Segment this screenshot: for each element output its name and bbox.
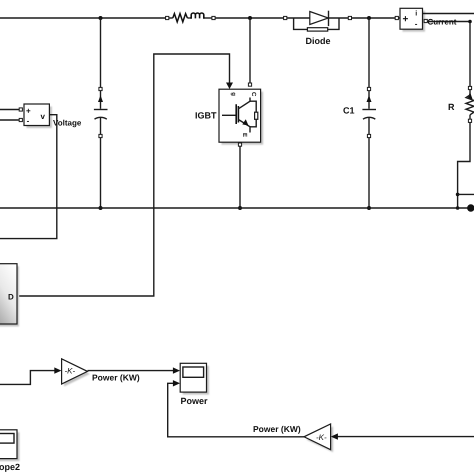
gain block 2 xyxy=(304,424,333,452)
label R xyxy=(448,102,455,112)
wire current i output to right edge xyxy=(423,13,474,15)
subsystem D (PWM generator) xyxy=(0,264,19,327)
svg-text:Diode: Diode xyxy=(306,36,331,46)
resistor R xyxy=(466,86,474,122)
svg-text:i: i xyxy=(415,10,417,18)
node junction C to bus xyxy=(99,206,103,210)
wire gain2 output loop to scope xyxy=(168,383,304,437)
wire C branch upper xyxy=(100,18,102,87)
svg-text:+: + xyxy=(26,107,31,116)
label Scope2 xyxy=(0,462,20,472)
svg-text:E: E xyxy=(241,133,248,137)
wire current minus to R xyxy=(424,19,472,86)
wire top rail middle segment xyxy=(215,17,285,19)
capacitor C xyxy=(94,87,108,137)
svg-text:v: v xyxy=(41,112,46,121)
series RLC branch L1R1 xyxy=(166,13,215,22)
scope Power xyxy=(180,363,209,394)
voltage measurement block U2 xyxy=(24,104,52,128)
label Voltage xyxy=(53,119,82,128)
node junction top rail to IGBT collector xyxy=(248,16,252,20)
current measurement block U3 xyxy=(400,8,425,31)
svg-text:C: C xyxy=(250,92,257,97)
arrowhead into scope input 2 xyxy=(173,380,180,386)
label Diode xyxy=(306,36,331,46)
node junction R branch to bus xyxy=(456,206,460,210)
capacitor C1 xyxy=(362,87,376,137)
wire gain1 input from left edge xyxy=(0,371,55,385)
wire current block input port xyxy=(395,16,400,19)
label Power (KW) gain2 xyxy=(253,424,301,434)
arrowhead into scope input 1 xyxy=(173,367,180,373)
svg-text:D: D xyxy=(8,293,14,302)
wire R bottom to bus xyxy=(458,122,470,208)
svg-text:-: - xyxy=(415,20,418,29)
arrowhead gain1 input xyxy=(54,367,61,373)
wire C1 branch lower xyxy=(368,138,370,208)
arrowhead gate into IGBT xyxy=(226,83,233,90)
svg-text:Power (KW): Power (KW) xyxy=(253,424,301,434)
wire gate path from subsystem D xyxy=(19,54,230,296)
node bus end terminal xyxy=(467,204,474,211)
wire voltage input plus xyxy=(0,108,22,111)
IGBT U1 xyxy=(219,89,263,145)
wire gain2 input from right edge xyxy=(337,436,474,438)
wire top rail right segment xyxy=(352,17,396,19)
svg-text:-: - xyxy=(27,117,30,126)
diode D1 xyxy=(284,11,352,31)
svg-text:Power (KW): Power (KW) xyxy=(92,373,140,383)
wire voltage input minus xyxy=(0,118,22,121)
wire voltage output to left edge xyxy=(0,115,57,239)
svg-text:IGBT: IGBT xyxy=(195,111,217,121)
svg-text:g: g xyxy=(230,92,236,96)
gain block 1 xyxy=(62,359,90,387)
svg-text:-K-: -K- xyxy=(65,367,76,376)
wire IGBT collector xyxy=(248,18,251,86)
scope Scope2 xyxy=(0,430,20,461)
svg-text:Scope2: Scope2 xyxy=(0,462,20,472)
label Current xyxy=(428,18,457,27)
label Power (KW) gain1 xyxy=(92,373,140,383)
svg-text:C1: C1 xyxy=(343,106,355,116)
wire bottom bus xyxy=(0,207,468,209)
svg-text:Current: Current xyxy=(428,18,457,27)
arrowhead gain2 input xyxy=(331,433,338,439)
svg-text:-K-: -K- xyxy=(316,433,327,442)
wire C1 branch upper xyxy=(368,18,370,87)
wire gain1 to scope xyxy=(88,370,174,372)
node junction top rail to C1 xyxy=(367,16,371,20)
wire C branch lower xyxy=(100,138,102,208)
wire IGBT emitter xyxy=(238,143,241,208)
label C1 xyxy=(343,106,355,116)
svg-text:R: R xyxy=(448,102,455,112)
label Power xyxy=(181,396,209,406)
node junction C1 to bus xyxy=(367,206,371,210)
node junction to right edge tap xyxy=(456,193,460,197)
node junction emitter to bus xyxy=(238,206,242,210)
node junction top rail to C xyxy=(99,16,103,20)
svg-text:Power: Power xyxy=(181,396,209,406)
label IGBT xyxy=(195,111,217,121)
wire tap to right edge xyxy=(458,193,474,195)
svg-text:+: + xyxy=(403,14,409,25)
wire top rail left segment xyxy=(0,17,166,19)
